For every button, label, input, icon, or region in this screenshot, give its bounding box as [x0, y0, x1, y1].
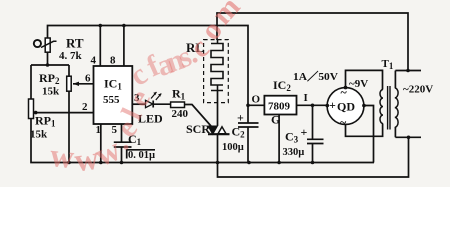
wire RP2 top lead [68, 65, 70, 76]
node dot QD top edge [344, 86, 348, 90]
capacitor C2 [238, 123, 259, 127]
wire pin8 drop [123, 26, 125, 67]
op-amp U1: IC1 555 box [94, 66, 133, 124]
capacitor C1 [114, 142, 155, 158]
wire pin3 [132, 103, 145, 105]
resistor RT (thermistor) [34, 38, 57, 52]
svg-text:RP2: RP2 [39, 71, 60, 86]
node dot pin1 ground [99, 161, 103, 165]
node dot pin8 [122, 24, 126, 28]
node dot RP2 ground [67, 161, 71, 165]
node dot pin4 [99, 24, 103, 28]
svg-text:100µ: 100µ [222, 142, 244, 153]
node dot G ground [277, 161, 281, 165]
node dot QD left edge [326, 104, 330, 108]
wire left rail upper [30, 65, 32, 99]
node dot mains top [406, 69, 410, 73]
potentiometer RP1 [29, 99, 34, 119]
svg-text:7809: 7809 [268, 101, 291, 113]
wire 7809 I pin to QD [297, 104, 328, 106]
svg-text:15k: 15k [42, 86, 60, 98]
wire pin2 [34, 112, 94, 114]
bridge rectifier QD [327, 88, 364, 125]
svg-text:~: ~ [341, 85, 348, 99]
node dot QD right edge [362, 104, 366, 108]
transformer T1 primary winding [395, 88, 398, 127]
svg-text:+: + [329, 98, 336, 112]
svg-text:~9V: ~9V [349, 78, 368, 90]
svg-text:RT: RT [66, 36, 84, 51]
svg-text:O: O [252, 94, 261, 106]
transformer T1 core [388, 86, 390, 130]
wire SCR cathode to ground [218, 134, 409, 177]
wire QD right to ground [364, 106, 374, 163]
svg-text:~: ~ [340, 115, 347, 129]
svg-text:240: 240 [172, 108, 189, 120]
wire RP2 bottom lead [68, 91, 70, 162]
svg-text:+: + [237, 111, 244, 125]
svg-text:SCR: SCR [186, 122, 210, 136]
wire Vcc top rail of 555 [48, 26, 249, 106]
node dot QD left [326, 104, 330, 108]
wire primary bottom lead [394, 127, 396, 137]
svg-text:T1: T1 [382, 58, 394, 71]
svg-text:I: I [304, 92, 308, 104]
node dot C3 top [311, 104, 315, 108]
svg-text:4: 4 [91, 55, 97, 67]
wire pin5 to C1 [121, 124, 123, 142]
watermark www.elecfans.com [48, 0, 246, 180]
svg-text:IC2: IC2 [273, 78, 291, 93]
wire left rail lower [31, 119, 374, 163]
resistor R1 [171, 102, 185, 108]
wire 7809 G lead [278, 115, 280, 163]
wire RT bottom lead [47, 52, 49, 65]
node dot mains bottom [407, 136, 411, 140]
svg-text:RP1: RP1 [35, 114, 56, 129]
svg-text:G: G [271, 113, 280, 127]
svg-text:C3: C3 [285, 130, 299, 145]
svg-text:R1: R1 [172, 87, 186, 102]
svg-text:2: 2 [82, 101, 88, 113]
wire C3 top lead [312, 105, 314, 139]
node dot C2 ground [247, 161, 251, 165]
wire C1 bottom lead [121, 147, 123, 163]
wire pin6 [73, 83, 94, 85]
LED D1 [146, 92, 162, 108]
node dot QD top [344, 86, 348, 90]
regulator IC2 7809 box [264, 96, 296, 115]
node dot C1 ground [120, 161, 124, 165]
node dot RT bottom [46, 63, 50, 67]
wire primary top lead [394, 71, 396, 89]
svg-text:330µ: 330µ [283, 147, 305, 158]
wire mains top loop [217, 13, 408, 71]
wire QD top to secondary [346, 70, 383, 89]
wire LED to R1 [153, 103, 170, 105]
node dot C3 ground [311, 161, 315, 165]
wire mains bottom stub [395, 136, 421, 138]
relay RL dashed box [204, 40, 229, 103]
wire 7809 O pin [248, 104, 264, 106]
svg-text:~220V: ~220V [403, 84, 433, 96]
node dot RP1 wiper [34, 111, 38, 115]
transformer T1 secondary winding [380, 90, 383, 124]
resistor RL heating element [211, 40, 223, 91]
transistor Q1: SCR [208, 126, 230, 134]
wire QD bottom to secondary [346, 124, 383, 137]
svg-text:4. 7k: 4. 7k [59, 50, 83, 62]
wire pin1 [100, 124, 102, 163]
svg-text:QD: QD [337, 100, 355, 114]
node dot SCR ground [216, 161, 220, 165]
wire left block top [31, 64, 69, 66]
wire pin4 drop [99, 26, 101, 67]
wire RL to SCR anode [217, 91, 219, 126]
potentiometer RP2 [67, 76, 79, 91]
wire C2 bottom lead [247, 127, 249, 163]
svg-text:1: 1 [96, 124, 102, 136]
svg-text:8: 8 [110, 55, 116, 67]
wire mains top stub [395, 70, 421, 72]
wire C3 bottom lead [312, 144, 314, 163]
wire R1 to SCR gate [185, 105, 212, 127]
svg-text:15k: 15k [30, 129, 48, 141]
svg-text:1A／50V: 1A／50V [293, 70, 338, 83]
svg-text:6: 6 [85, 73, 91, 85]
capacitor C3 [307, 139, 324, 143]
wire C2 top lead [247, 105, 249, 123]
node dot QD right [362, 104, 366, 108]
svg-text:+: + [301, 125, 308, 139]
node dot O junction [246, 104, 250, 108]
